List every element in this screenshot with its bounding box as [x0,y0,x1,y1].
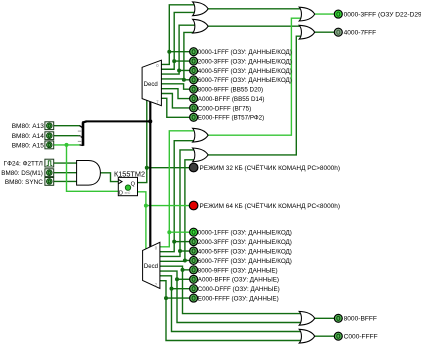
svg-text:6000-7FFF (ОЗУ: ДАННЫЕ/КОД): 6000-7FFF (ОЗУ: ДАННЫЕ/КОД) [198,77,292,84]
svg-text:ВМ80: A13: ВМ80: A13 [12,123,45,130]
svg-text:D: D [119,191,123,197]
svg-text:4000-7FFF: 4000-7FFF [344,30,377,37]
svg-text:4000-5FFF (ОЗУ: ДАННЫЕ/КОД): 4000-5FFF (ОЗУ: ДАННЫЕ/КОД) [198,68,292,75]
svg-text:ВМ80: A14: ВМ80: A14 [12,133,45,140]
svg-text:C000-DFFF (ВГ75): C000-DFFF (ВГ75) [198,105,251,112]
svg-text:0000-1FFF (ОЗУ: ДАННЫЕ/КОД): 0000-1FFF (ОЗУ: ДАННЫЕ/КОД) [198,49,292,56]
svg-text:0000-3FFF (ОЗУ D22-D29): 0000-3FFF (ОЗУ D22-D29) [344,12,421,19]
svg-text:8000-9FFF (ОЗУ: ДАННЫЕ): 8000-9FFF (ОЗУ: ДАННЫЕ) [198,267,278,274]
svg-text:A000-BFFF (ОЗУ: ДАННЫЕ): A000-BFFF (ОЗУ: ДАННЫЕ) [198,277,279,284]
svg-text:ВМ80: A15: ВМ80: A15 [12,142,45,149]
svg-text:2000-3FFF (ОЗУ: ДАННЫЕ/КОД): 2000-3FFF (ОЗУ: ДАННЫЕ/КОД) [198,239,292,246]
svg-text:4000-5FFF (ОЗУ: ДАННЫЕ/КОД): 4000-5FFF (ОЗУ: ДАННЫЕ/КОД) [198,248,292,255]
svg-text:ВМ80: SYNC: ВМ80: SYNC [5,179,43,186]
svg-text:C000-FFFF: C000-FFFF [344,334,378,341]
svg-text:A000-BFFF (ВВ55 D14): A000-BFFF (ВВ55 D14) [198,96,265,103]
svg-text:К155ТМ2: К155ТМ2 [114,170,145,179]
svg-text:2000-3FFF (ОЗУ: ДАННЫЕ/КОД): 2000-3FFF (ОЗУ: ДАННЫЕ/КОД) [198,58,292,65]
svg-text:8000-9FFF (ВВ55 D20): 8000-9FFF (ВВ55 D20) [198,87,263,94]
svg-text:РЕЖИМ 32 КБ (СЧЁТЧИК КОМАНД PC: РЕЖИМ 32 КБ (СЧЁТЧИК КОМАНД PC>8000h) [200,164,340,172]
svg-text:ГФ24: Ф2ТТЛ: ГФ24: Ф2ТТЛ [4,161,43,168]
svg-text:ВМ80: DS(М1): ВМ80: DS(М1) [1,170,43,177]
svg-text:Decd: Decd [144,82,158,88]
svg-text:8000-BFFF: 8000-BFFF [344,316,377,323]
svg-text:6000-7FFF (ОЗУ: ДАННЫЕ/КОД): 6000-7FFF (ОЗУ: ДАННЫЕ/КОД) [198,258,292,265]
svg-text:РЕЖИМ 64 КБ (СЧЁТЧИК КОМАНД PC: РЕЖИМ 64 КБ (СЧЁТЧИК КОМАНД PC<8000h) [200,202,340,210]
svg-text:E000-FFFF (ВТ57/РФ2): E000-FFFF (ВТ57/РФ2) [198,115,264,122]
svg-text:Q: Q [131,182,136,188]
svg-text:C000-DFFF (ОЗУ: ДАННЫЕ): C000-DFFF (ОЗУ: ДАННЫЕ) [198,286,280,293]
svg-text:0000-1FFF (ОЗУ: ДАННЫЕ/КОД): 0000-1FFF (ОЗУ: ДАННЫЕ/КОД) [198,230,292,237]
svg-text:en0: en0 [125,191,131,195]
svg-text:Decd: Decd [144,264,158,270]
svg-text:E000-FFFF (ОЗУ: ДАННЫЕ): E000-FFFF (ОЗУ: ДАННЫЕ) [198,295,279,302]
